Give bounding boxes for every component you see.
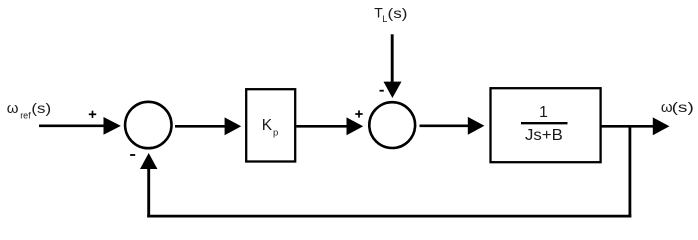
svg-text:Js+B: Js+B: [525, 127, 563, 144]
wire feedback bottom horizontal: [147, 215, 631, 218]
node wref(s) input label: [7, 100, 51, 121]
wire input arrow into summing junction S1: [39, 117, 121, 135]
wire S1 to Kp block: [175, 117, 241, 135]
wire feedback right vertical: [629, 126, 632, 217]
summing junction S2: [369, 102, 415, 148]
block 1/(Js+B) plant: [491, 88, 601, 162]
minus sign at summing junction S1 feedback input: [130, 154, 135, 156]
svg-text:1: 1: [539, 104, 548, 121]
svg-text:(s): (s): [672, 99, 694, 115]
plus sign at summing junction S1 input: [89, 111, 96, 118]
svg-text:p: p: [273, 128, 278, 139]
block Kp: [246, 89, 295, 161]
wire feedback left vertical with up arrow into S1: [140, 153, 157, 217]
svg-text:K: K: [262, 117, 273, 134]
svg-text:(s): (s): [388, 5, 408, 21]
minus sign at summing junction S2 top input: [380, 90, 384, 92]
svg-text:(s): (s): [31, 100, 51, 116]
label Kp: [262, 117, 278, 138]
node omega(s) output label: [661, 99, 694, 116]
plus sign at summing junction S2 input: [355, 110, 362, 117]
svg-text:ref: ref: [20, 111, 31, 121]
node TL(s) disturbance label: [374, 4, 407, 24]
summing junction S1: [125, 102, 171, 148]
wire Kp to summing junction S2: [296, 117, 363, 135]
wire S2 to plant block: [420, 117, 485, 135]
label 1/(Js+B) fraction: [521, 104, 568, 144]
svg-text:ω: ω: [7, 100, 19, 117]
wire output arrow: [601, 117, 669, 135]
wire TL drop arrow into S2: [384, 34, 402, 98]
